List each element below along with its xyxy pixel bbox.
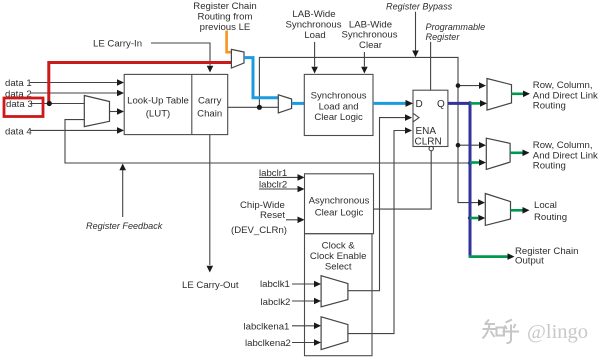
navy wire register Q output (448, 103, 470, 256)
label LAB-Wide Synchronous Load (286, 9, 342, 41)
watermark zhihu @lingo (483, 320, 520, 344)
wire branch to output mux 2 top (458, 142, 486, 149)
mux U1 data3/feedback select (84, 96, 109, 127)
svg-text:@lingo: @lingo (527, 321, 588, 343)
svg-text:Select: Select (325, 261, 352, 272)
svg-text:LAB-Wide: LAB-Wide (292, 9, 335, 20)
wire register bypass (combinational) (259, 57, 478, 202)
label Programmable Register (426, 22, 486, 42)
wire branch to output mux 1 top (458, 82, 486, 89)
green wire register chain output (469, 253, 515, 260)
annotation arrow Register Bypass (412, 12, 419, 58)
arrow into local routing mux top (478, 199, 485, 206)
svg-text:Register: Register (426, 32, 461, 42)
Carry Chain label (197, 95, 222, 119)
wire labclr1 (259, 174, 305, 181)
svg-text:Output: Output (515, 256, 544, 267)
wire mux U1 output to LUT (110, 108, 125, 115)
svg-text:Clear: Clear (359, 40, 383, 51)
svg-text:Look-Up Table: Look-Up Table (127, 95, 189, 106)
svg-text:Register Feedback: Register Feedback (86, 221, 163, 231)
mux U9 local routing (485, 194, 510, 226)
wire labclk2 (292, 298, 321, 305)
label Chip-Wide Reset (DEV_CLRn) (231, 200, 287, 236)
svg-text:LE Carry-Out: LE Carry-Out (182, 280, 239, 291)
blue wire sync box output to register D (373, 100, 413, 107)
mux U3 sync-load input select (278, 95, 291, 113)
svg-text:Synchronous: Synchronous (286, 20, 342, 31)
green wire to output mux2 (470, 159, 486, 166)
wire LUT combinational output (228, 106, 279, 108)
orange wire register chain routing from previous LE (227, 31, 232, 53)
junction node feedback / mux2 (468, 161, 472, 165)
svg-text:Reset: Reset (260, 210, 285, 221)
Clock & Clock Enable Select box (305, 234, 373, 356)
svg-text:Register Chain: Register Chain (193, 1, 256, 12)
green output wire mux U8 (510, 150, 529, 157)
programmable register U4 (413, 90, 448, 151)
wire LE carry-out (207, 135, 214, 273)
svg-text:Local: Local (534, 200, 557, 211)
svg-text:Clear Logic: Clear Logic (315, 207, 364, 218)
wire LE carry-in (151, 43, 213, 73)
blue wire mux U2 output to sync mux (244, 58, 278, 98)
wire labclkena1 (292, 323, 321, 330)
junction dot on bypass at mux1 branch (456, 83, 461, 88)
mux U5 clock select (321, 276, 348, 307)
label LAB-Wide Synchronous Clear (342, 20, 398, 51)
svg-text:labclkena2: labclkena2 (245, 338, 291, 349)
svg-text:Routing from: Routing from (198, 12, 253, 23)
svg-text:Clear Logic: Clear Logic (314, 112, 363, 123)
wire data4 (30, 127, 124, 134)
svg-text:labclk1: labclk1 (260, 279, 290, 290)
mux U8 row/column output 2 (486, 138, 510, 169)
green output wire mux U7 (512, 91, 531, 98)
wire async clear output to CLRN (374, 151, 432, 209)
CLRN active-low bubble (429, 146, 433, 150)
Look-Up Table (LUT) box (124, 74, 228, 134)
svg-text:Load and: Load and (319, 102, 359, 113)
wire clock enable into register ENA (348, 127, 412, 333)
junction node data3 (47, 101, 52, 106)
Synchronous Load and Clear Logic box (304, 74, 373, 135)
wire data3 (30, 103, 84, 105)
green wire to local routing mux (470, 215, 485, 222)
svg-text:data 3: data 3 (6, 99, 33, 110)
svg-text:Routing: Routing (534, 212, 567, 223)
green output wire mux U9 (511, 207, 530, 214)
mux U6 clock enable select (321, 317, 348, 350)
clock wedge pin (413, 113, 419, 122)
label Register Chain Output (515, 246, 578, 267)
junction node Q / mux1 (468, 101, 472, 105)
svg-text:Routing: Routing (533, 161, 566, 172)
wire chip-wide reset (286, 217, 305, 224)
wire labclkena2 (292, 339, 321, 346)
mux U7 row/column output 1 (487, 79, 512, 111)
annotation arrow Register Feedback (119, 164, 126, 218)
wire labclr2 (259, 186, 305, 193)
wire LAB-wide sync clear arrow (361, 52, 368, 74)
junction node combout (257, 105, 262, 110)
red emphasis box around data 3 (4, 98, 43, 117)
svg-text:CLRN: CLRN (415, 137, 442, 148)
label Register Chain Routing from previous LE (193, 1, 256, 33)
svg-text:(DEV_CLRn): (DEV_CLRn) (231, 225, 287, 236)
wire clock into register (348, 114, 412, 290)
svg-text:Clock &: Clock & (322, 241, 356, 252)
svg-text:Chain: Chain (197, 108, 222, 119)
wire LAB-wide sync load arrow (311, 42, 318, 74)
svg-text:Synchronous: Synchronous (311, 91, 367, 102)
svg-text:Carry: Carry (198, 95, 222, 106)
svg-text:Load: Load (304, 30, 325, 41)
Asynchronous Clear Logic box (305, 174, 374, 234)
svg-text:Programmable: Programmable (426, 22, 486, 32)
svg-text:data 4: data 4 (5, 126, 32, 137)
annotation line Programmable Register (430, 42, 432, 90)
svg-text:labclkena1: labclkena1 (244, 321, 290, 332)
label Row Column And Direct Link Routing 1 (533, 80, 598, 111)
svg-text:ENA: ENA (416, 126, 437, 137)
junction node local mux (468, 216, 472, 220)
wire labclk1 (292, 281, 321, 288)
label Local Routing (534, 200, 567, 223)
svg-text:Q: Q (437, 99, 445, 110)
wire register feedback (65, 120, 469, 163)
svg-text:D: D (416, 99, 423, 110)
svg-text:Register Bypass: Register Bypass (386, 2, 453, 12)
wire data2 (30, 90, 124, 97)
label Row Column And Direct Link Routing 2 (533, 140, 598, 171)
blue wire mux U3 output into sync box (292, 102, 305, 105)
red highlighted wire data3 to register-chain mux (49, 63, 231, 105)
svg-text:Asynchronous: Asynchronous (309, 196, 370, 207)
junction dot on bypass at mux2 branch (456, 143, 461, 148)
svg-text:labclk2: labclk2 (261, 297, 291, 308)
svg-text:Routing: Routing (533, 101, 566, 112)
svg-text:(LUT): (LUT) (146, 108, 171, 119)
svg-text:LE Carry-In: LE Carry-In (93, 38, 142, 49)
svg-text:previous LE: previous LE (200, 22, 251, 33)
wire data1 (30, 79, 124, 86)
green wire Q to output mux1 (470, 100, 487, 107)
mux U2 register-chain / LE input select (231, 49, 244, 68)
svg-text:data 1: data 1 (5, 78, 32, 89)
